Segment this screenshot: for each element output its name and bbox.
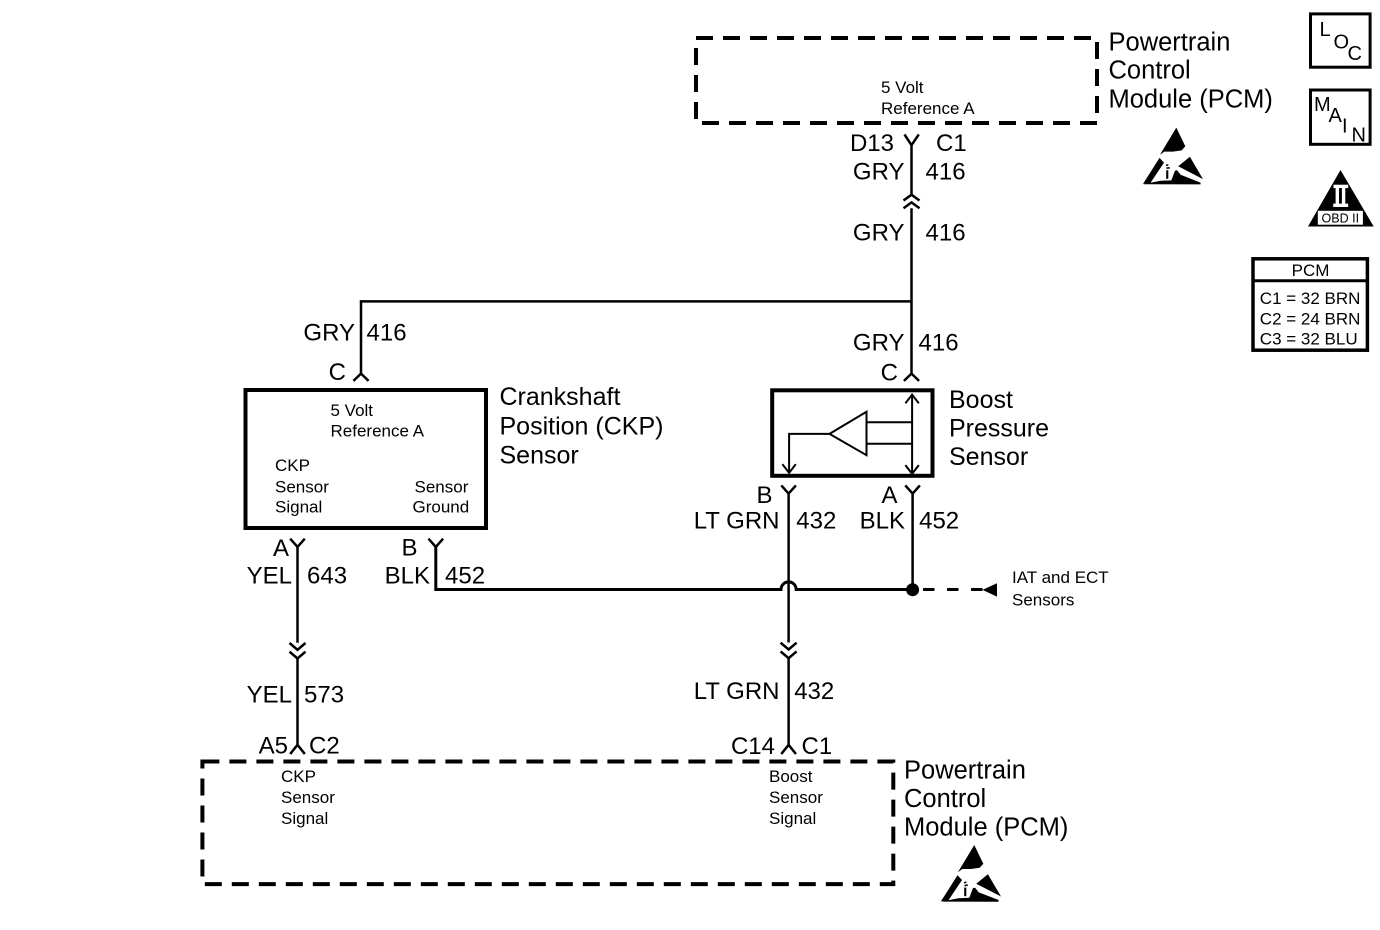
dashed wire to IAT and ECT sensors <box>923 588 983 591</box>
svg-text:I: I <box>1342 116 1348 138</box>
svg-text:Ground: Ground <box>413 498 470 517</box>
wire BLK 452 (boost A) <box>911 494 914 590</box>
connector C at CKP sensor <box>353 374 368 381</box>
boost sensor internal: amplifier triangle <box>830 412 867 455</box>
boost pressure sensor box <box>772 390 932 476</box>
svg-text:GRY: GRY <box>853 220 905 247</box>
wire GRY 416 vertical (PCM to boost sensor) <box>910 145 913 195</box>
svg-text:Boost: Boost <box>769 767 813 786</box>
svg-text:N: N <box>1352 125 1366 147</box>
connector B at boost sensor <box>781 485 796 493</box>
inline connector chevrons (up) <box>904 195 920 209</box>
svg-text:Powertrain: Powertrain <box>904 757 1026 785</box>
svg-text:Powertrain: Powertrain <box>1109 29 1231 57</box>
OBD II triangle symbol <box>1308 170 1374 227</box>
svg-text:416: 416 <box>926 220 966 247</box>
svg-text:C2: C2 <box>309 733 340 760</box>
svg-text:C: C <box>881 360 898 387</box>
boost sensor internal: output to pin B with arrow <box>789 434 829 473</box>
svg-text:416: 416 <box>926 159 966 186</box>
svg-text:YEL: YEL <box>247 681 292 708</box>
svg-text:643: 643 <box>307 562 347 589</box>
svg-text:A5: A5 <box>259 733 288 760</box>
svg-text:LT GRN: LT GRN <box>694 678 780 705</box>
svg-text:PCM: PCM <box>1292 261 1330 280</box>
connector A at CKP sensor <box>290 539 305 547</box>
LOC box <box>1311 14 1371 67</box>
svg-text:Crankshaft: Crankshaft <box>500 383 621 411</box>
svg-text:C1: C1 <box>802 733 833 760</box>
svg-text:Position (CKP): Position (CKP) <box>500 412 664 440</box>
boost sensor internal: taps to amplifier <box>867 421 913 423</box>
connector B at CKP sensor <box>429 539 444 547</box>
svg-text:L: L <box>1320 19 1331 41</box>
svg-text:416: 416 <box>367 319 407 346</box>
connector A at boost sensor <box>905 485 920 493</box>
svg-text:C1: C1 <box>936 130 967 157</box>
svg-text:B: B <box>756 482 772 509</box>
svg-text:Control: Control <box>1109 57 1191 85</box>
svg-text:A: A <box>1329 105 1343 127</box>
MAIN box <box>1311 90 1371 147</box>
inline connector chevrons (down) on LT GRN <box>781 643 797 659</box>
svg-text:Reference A: Reference A <box>881 99 975 118</box>
svg-text:C14: C14 <box>731 733 775 760</box>
svg-text:432: 432 <box>794 678 834 705</box>
svg-text:Sensor: Sensor <box>500 442 579 470</box>
connector C at boost sensor <box>904 374 919 381</box>
svg-text:Boost: Boost <box>949 386 1013 414</box>
svg-text:GRY: GRY <box>853 329 905 356</box>
connector A5/C2 at bottom PCM <box>290 745 305 754</box>
svg-text:Sensor: Sensor <box>769 788 823 807</box>
svg-text:452: 452 <box>445 562 485 589</box>
svg-text:Control: Control <box>904 785 986 813</box>
svg-text:A: A <box>881 482 897 509</box>
svg-text:Pressure: Pressure <box>949 414 1049 442</box>
svg-text:Sensor: Sensor <box>275 478 329 497</box>
svg-text:GRY: GRY <box>853 159 905 186</box>
bottom PCM dashed box <box>202 762 893 885</box>
svg-text:Reference A: Reference A <box>331 421 425 440</box>
svg-text:Signal: Signal <box>275 498 322 517</box>
wire branch to CKP sensor <box>361 301 912 373</box>
wire YEL 643 <box>296 547 299 643</box>
svg-text:IAT and ECT: IAT and ECT <box>1012 568 1109 587</box>
svg-text:Module (PCM): Module (PCM) <box>1109 86 1273 114</box>
svg-text:C2 = 24 BRN: C2 = 24 BRN <box>1260 309 1361 328</box>
svg-text:CKP: CKP <box>275 456 310 475</box>
svg-text:B: B <box>401 535 417 562</box>
wire BLK 452 from CKP B <box>436 547 913 590</box>
svg-text:Module (PCM): Module (PCM) <box>904 814 1068 842</box>
top PCM dashed box <box>696 38 1097 123</box>
svg-text:573: 573 <box>304 681 344 708</box>
svg-text:5 Volt: 5 Volt <box>331 401 374 420</box>
svg-text:C1 = 32 BRN: C1 = 32 BRN <box>1260 289 1361 308</box>
svg-text:Sensor: Sensor <box>415 478 469 497</box>
svg-text:5 Volt: 5 Volt <box>881 78 924 97</box>
wire LT GRN 432 <box>787 494 790 643</box>
svg-text:CKP: CKP <box>281 767 316 786</box>
svg-text:D13: D13 <box>850 130 894 157</box>
boost sensor internal: right vertical with arrows <box>911 395 913 474</box>
ESD symbol top <box>1143 128 1203 185</box>
svg-text:C: C <box>1348 43 1362 65</box>
PCM connector table <box>1253 259 1367 350</box>
arrowhead to IAT/ECT <box>983 583 998 596</box>
svg-text:BLK: BLK <box>385 562 430 589</box>
svg-text:Sensors: Sensors <box>1012 591 1074 610</box>
svg-text:Signal: Signal <box>281 809 328 828</box>
svg-text:452: 452 <box>919 508 959 535</box>
svg-text:LT GRN: LT GRN <box>694 508 780 535</box>
svg-text:A: A <box>273 535 289 562</box>
svg-text:Sensor: Sensor <box>281 788 335 807</box>
svg-text:Sensor: Sensor <box>949 443 1028 471</box>
svg-text:BLK: BLK <box>860 508 905 535</box>
connector D13/C1 at top PCM <box>905 134 919 145</box>
ESD symbol bottom <box>941 845 1001 902</box>
CKP sensor box <box>246 390 487 528</box>
svg-text:YEL: YEL <box>247 562 292 589</box>
svg-text:GRY: GRY <box>303 319 355 346</box>
svg-text:OBD II: OBD II <box>1322 211 1360 225</box>
junction dot <box>906 583 919 596</box>
svg-text:432: 432 <box>796 508 836 535</box>
svg-text:C: C <box>329 359 346 386</box>
svg-text:416: 416 <box>919 329 959 356</box>
connector C14/C1 at bottom PCM <box>781 745 796 754</box>
svg-text:Signal: Signal <box>769 809 816 828</box>
inline connector chevrons (down) on YEL <box>290 643 306 659</box>
svg-text:C3 = 32 BLU: C3 = 32 BLU <box>1260 330 1358 349</box>
